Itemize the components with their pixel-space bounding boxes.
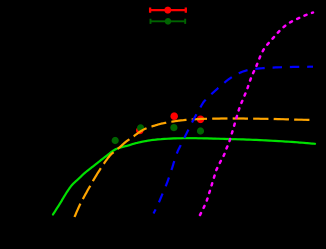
green solid curve [53, 138, 315, 214]
legend red errorbar line [150, 8, 186, 13]
blue dashed curve [154, 67, 314, 214]
red data point 1 [136, 127, 144, 135]
legend green marker [165, 18, 172, 25]
orange dashed curve [75, 119, 314, 218]
green data point 1 [112, 137, 119, 144]
red data point 3 [197, 116, 205, 124]
legend red marker [164, 7, 171, 14]
green data point 4 [197, 127, 204, 134]
green data point 2 (overlaps red 1) [137, 124, 144, 131]
legend green errorbar line [151, 19, 186, 24]
magenta dotted curve [200, 13, 313, 216]
green data point 3 [170, 124, 177, 131]
red data point 2 [170, 112, 178, 120]
